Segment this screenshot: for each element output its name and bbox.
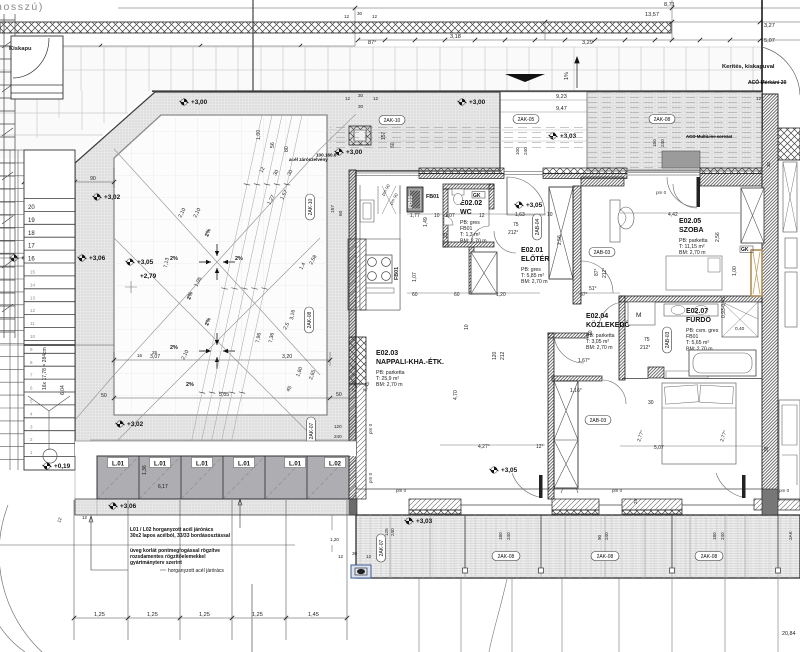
svg-text:+3,00: +3,00 — [191, 99, 208, 106]
svg-text:1,20: 1,20 — [330, 537, 339, 542]
washbasin counter — [664, 304, 718, 316]
left fence strip — [0, 14, 15, 338]
corridor walls ELOTER — [469, 247, 474, 294]
upper walkway dashes — [327, 130, 762, 141]
svg-text:51°: 51° — [589, 286, 597, 292]
svg-text:2AK-08: 2AK-08 — [307, 311, 313, 328]
svg-text:L.01: L.01 — [289, 462, 302, 468]
svg-text:50: 50 — [336, 392, 342, 398]
svg-text:36: 36 — [764, 446, 770, 452]
tall shaft X right of eloter — [549, 187, 573, 279]
svg-text:KÖZLEKEDŐ: KÖZLEKEDŐ — [586, 320, 631, 329]
svg-text:0,40: 0,40 — [735, 326, 745, 332]
wc outside door — [494, 231, 516, 253]
svg-text:12: 12 — [373, 96, 379, 101]
svg-text:50: 50 — [101, 393, 107, 399]
svg-text:1,25: 1,25 — [147, 612, 158, 618]
svg-text:120: 120 — [334, 424, 342, 429]
terrace floor — [114, 115, 327, 415]
room E02.02 WC — [460, 200, 487, 244]
svg-text:20,84: 20,84 — [782, 631, 796, 637]
WC door arc — [471, 226, 489, 244]
svg-text:90: 90 — [90, 176, 96, 182]
szoba1 door arc — [673, 184, 697, 208]
svg-text:pm 0: pm 0 — [779, 488, 790, 493]
svg-text:212°: 212° — [508, 230, 518, 236]
svg-text:100: 100 — [515, 147, 520, 155]
svg-text:L.01: L.01 — [196, 462, 209, 468]
west balcony panels — [97, 456, 349, 499]
svg-text:E02.04: E02.04 — [586, 313, 608, 320]
svg-text:+3,05: +3,05 — [501, 467, 518, 474]
svg-text:E02.01: E02.01 — [521, 247, 543, 254]
kitchen shaft FB01 — [407, 187, 423, 212]
svg-text:180: 180 — [498, 532, 503, 540]
terrace rotated dims — [46, 130, 371, 399]
svg-text:12: 12 — [82, 515, 88, 520]
svg-text:9,47: 9,47 — [556, 106, 567, 112]
svg-text:2AK-10: 2AK-10 — [308, 198, 314, 215]
svg-text:87°: 87° — [368, 40, 376, 46]
svg-text:60: 60 — [338, 210, 344, 216]
svg-text:2AK-08: 2AK-08 — [597, 554, 614, 560]
svg-text:1,25: 1,25 — [252, 612, 263, 618]
svg-text:2%: 2% — [186, 382, 194, 388]
svg-text:WC: WC — [460, 209, 472, 216]
svg-text:1,49: 1,49 — [423, 217, 429, 227]
svg-text:240: 240 — [523, 147, 528, 155]
east wall — [762, 94, 778, 500]
washing machine M — [628, 302, 655, 325]
svg-text:15: 15 — [30, 270, 36, 275]
svg-text:30: 30 — [357, 11, 363, 16]
svg-text:240: 240 — [660, 139, 665, 147]
svg-text:FB01: FB01 — [460, 226, 473, 232]
svg-text:3,29: 3,29 — [582, 40, 593, 46]
room E02.06 SZOBA — [679, 408, 708, 446]
svg-text:87°: 87° — [594, 268, 600, 276]
svg-text:3,20: 3,20 — [282, 354, 292, 360]
svg-text:100.160.6: 100.160.6 — [316, 153, 337, 158]
Kiskapu gate — [11, 36, 63, 99]
svg-text:E02.05: E02.05 — [679, 218, 701, 225]
svg-text:30: 30 — [358, 104, 364, 109]
inner白 strip bottom — [90, 439, 356, 441]
svg-text:16x 17,78 = 284cm: 16x 17,78 = 284cm — [42, 347, 48, 390]
svg-text:12: 12 — [344, 14, 350, 19]
svg-text:90: 90 — [597, 534, 602, 540]
balcony annotations — [130, 527, 231, 574]
svg-text:10: 10 — [464, 324, 470, 330]
svg-text:FB01: FB01 — [686, 334, 699, 340]
terrace X diagonals — [75, 114, 356, 444]
svg-text:+3,03: +3,03 — [416, 518, 433, 525]
gap strip above panels — [75, 441, 356, 456]
svg-text:1,67°: 1,67° — [578, 358, 590, 364]
svg-text:2AK-10: 2AK-10 — [384, 118, 401, 124]
svg-text:PB: parketta: PB: parketta — [679, 238, 708, 244]
diagonal dim chains — [187, 115, 302, 462]
svg-text:+3,00: +3,00 — [346, 149, 363, 156]
room E02.03 NAPPALI — [376, 350, 444, 388]
desk and chair szoba1 — [610, 200, 620, 242]
svg-text:+3,05: +3,05 — [526, 202, 543, 209]
svg-text:9,23: 9,23 — [556, 94, 567, 100]
south balcony deck — [356, 515, 800, 578]
svg-text:+0,19: +0,19 — [54, 463, 71, 470]
svg-text:12: 12 — [756, 96, 762, 101]
bench foot szoba2 — [666, 371, 708, 378]
svg-text:2AK-05: 2AK-05 — [518, 117, 535, 123]
svg-text:ACÓ Mérkáni 20: ACÓ Mérkáni 20 — [748, 78, 787, 86]
svg-text:SZOBA: SZOBA — [679, 227, 704, 234]
svg-text:BM: 2,70 m: BM: 2,70 m — [679, 250, 706, 256]
svg-text:2AK: 2AK — [788, 530, 793, 540]
top dimension lines — [0, 0, 800, 46]
svg-text:1,63: 1,63 — [515, 212, 525, 218]
svg-text:ELŐTÉR: ELŐTÉR — [521, 254, 549, 263]
slope 2% arrows — [199, 261, 211, 263]
bathtub — [689, 350, 756, 376]
svg-text:T: 25,9 m²: T: 25,9 m² — [376, 376, 399, 382]
svg-text:12: 12 — [30, 308, 36, 313]
interior ovals — [533, 214, 542, 240]
svg-text:PB: gres: PB: gres — [521, 267, 541, 273]
+3,06 marker near panels — [109, 503, 137, 510]
svg-text:pm 0: pm 0 — [396, 488, 407, 493]
+0,19 marker — [43, 463, 71, 470]
svg-text:12: 12 — [372, 14, 378, 19]
shower corner — [722, 302, 758, 337]
svg-text:2AK-08: 2AK-08 — [654, 117, 671, 123]
svg-text:+3,00: +3,00 — [469, 99, 486, 106]
room E02.07 FURDO — [686, 308, 719, 352]
svg-text:12: 12 — [338, 554, 344, 559]
svg-text:E02.02: E02.02 — [460, 200, 482, 207]
GK tan wall — [751, 250, 762, 296]
svg-text:1,00: 1,00 — [732, 266, 738, 276]
bed szoba2 — [662, 383, 736, 464]
svg-text:1,25: 1,25 — [94, 612, 105, 618]
room E02.05 SZOBA — [679, 218, 708, 256]
svg-text:10: 10 — [547, 212, 553, 218]
pillar — [349, 126, 371, 145]
corner blocks — [349, 499, 357, 515]
bottom dims — [74, 617, 347, 619]
svg-text:pm 0: pm 0 — [368, 472, 373, 483]
svg-text:25: 25 — [152, 350, 158, 355]
svg-text:GK: GK — [741, 247, 749, 253]
wall between szoba1 and furdo — [619, 296, 762, 302]
svg-text:212°: 212° — [640, 345, 650, 351]
north window sills — [356, 170, 700, 176]
drain box (blue) — [351, 565, 371, 578]
svg-text:1,36: 1,36 — [142, 465, 148, 475]
svg-text:+3,06: +3,06 — [120, 503, 137, 510]
svg-text:2AK-08: 2AK-08 — [498, 554, 515, 560]
svg-text:T: 5,65 m²: T: 5,65 m² — [686, 340, 709, 346]
svg-text:L.02: L.02 — [329, 462, 342, 468]
svg-text:18: 18 — [28, 231, 35, 237]
west balcony strip under panels — [75, 499, 356, 515]
svg-text:212°: 212° — [602, 268, 608, 278]
svg-text:240: 240 — [390, 528, 395, 536]
terrace surround (dotted band) — [75, 92, 500, 455]
svg-text:2,56: 2,56 — [557, 235, 563, 245]
bed szoba1 — [666, 256, 722, 290]
svg-text:180: 180 — [712, 532, 717, 540]
svg-text:+2,79: +2,79 — [140, 273, 157, 280]
svg-text:157: 157 — [330, 205, 336, 213]
svg-text:ACO MultiLine sorozat: ACO MultiLine sorozat — [686, 134, 733, 139]
reference ovals — [379, 116, 405, 125]
svg-text:1%: 1% — [564, 72, 570, 80]
kitchen sink & dashes — [360, 200, 374, 222]
south wall & sills — [356, 488, 762, 490]
svg-text:12: 12 — [366, 554, 372, 559]
room E02.01 ELOTER — [521, 247, 549, 285]
svg-text:120: 120 — [492, 351, 498, 360]
svg-text:212: 212 — [500, 351, 506, 360]
svg-text:T: 11,15 m²: T: 11,15 m² — [679, 244, 705, 250]
svg-text:75: 75 — [644, 337, 650, 343]
property boundary right — [761, 0, 763, 131]
svg-text:2AB-04: 2AB-04 — [535, 218, 541, 235]
svg-text:16: 16 — [137, 353, 143, 358]
svg-text:BM: 2,70 m: BM: 2,70 m — [521, 279, 548, 285]
svg-text:BM: 2,70 m: BM: 2,70 m — [376, 382, 403, 388]
svg-text:10: 10 — [588, 330, 594, 336]
svg-text:M: M — [636, 312, 641, 319]
svg-text:30: 30 — [766, 162, 771, 167]
svg-text:BM: 2,70 m: BM: 2,70 m — [586, 345, 613, 351]
svg-text:L.01: L.01 — [238, 462, 251, 468]
central wall — [548, 333, 554, 499]
svg-text:1,25: 1,25 — [199, 612, 210, 618]
svg-text:20: 20 — [28, 205, 35, 211]
svg-text:16: 16 — [28, 257, 35, 263]
svg-text:2%: 2% — [170, 345, 178, 351]
svg-text:2%: 2% — [170, 256, 178, 262]
fence crosshatch band — [0, 22, 671, 33]
svg-text:PB: parketta: PB: parketta — [376, 370, 405, 376]
svg-text:30x2 lapos acélból, 33/33 bord: 30x2 lapos acélból, 33/33 bordásosztássa… — [130, 533, 231, 539]
svg-text:FB01: FB01 — [408, 196, 414, 208]
svg-text:+3,02: +3,02 — [104, 194, 121, 201]
west wall — [349, 170, 356, 499]
svg-text:240: 240 — [334, 434, 342, 439]
+3,03 marker on deck — [405, 518, 433, 525]
svg-text:FB01: FB01 — [426, 194, 439, 200]
svg-text:2AK-08: 2AK-08 — [701, 554, 718, 560]
shaft X in szoba1 right — [741, 188, 764, 243]
interior dim hairlines — [407, 213, 762, 446]
svg-text:T: 1,3 m²: T: 1,3 m² — [460, 232, 480, 238]
svg-text:gyártmányterv szerint: gyártmányterv szerint — [130, 560, 182, 566]
left lower fence strip — [0, 150, 24, 470]
svg-text:125: 125 — [384, 528, 389, 536]
svg-text:+3,05: +3,05 — [137, 259, 154, 266]
svg-text:nosszú): nosszú) — [0, 1, 44, 13]
pavement left extension — [0, 91, 152, 158]
svg-text:pm 0: pm 0 — [612, 488, 623, 493]
svg-text:6,04: 6,04 — [60, 385, 66, 395]
svg-text:T: 5,85 m²: T: 5,85 m² — [521, 273, 544, 279]
cooktop — [366, 255, 392, 283]
svg-text:2,56: 2,56 — [715, 232, 721, 242]
svg-text:FB01: FB01 — [394, 267, 400, 280]
svg-text:pm 0: pm 0 — [656, 190, 667, 195]
svg-text:25: 25 — [633, 499, 638, 504]
svg-text:30: 30 — [352, 551, 358, 556]
svg-text:2%: 2% — [235, 256, 243, 262]
svg-text:10: 10 — [30, 334, 36, 339]
svg-text:L.01: L.01 — [154, 462, 167, 468]
south door leaves/arcs — [539, 475, 543, 498]
shaft with X next to eloter — [471, 252, 497, 294]
svg-text:PB: gres: PB: gres — [460, 220, 480, 226]
svg-text:12: 12 — [345, 96, 351, 101]
svg-text:4,70: 4,70 — [453, 390, 459, 400]
svg-text:L.01: L.01 — [112, 462, 125, 468]
building north wall — [419, 168, 762, 186]
szoba1 entry door leaf — [697, 177, 701, 207]
svg-text:horganyzott acél járórács: horganyzott acél járórács — [168, 568, 224, 574]
small sink wc — [444, 216, 453, 225]
kozlekedo door arcs — [599, 302, 625, 328]
svg-text:5,07: 5,07 — [764, 38, 775, 44]
svg-text:240: 240 — [604, 532, 609, 540]
room E02.04 KOZLEKEDO — [586, 313, 631, 351]
svg-text:1,07: 1,07 — [412, 272, 418, 282]
partition wall eloter/szoba1 — [573, 186, 581, 304]
svg-text:+3,06: +3,06 — [89, 255, 106, 262]
svg-text:2AB-03: 2AB-03 — [594, 250, 611, 256]
svg-text:0,93-0,45: 0,93-0,45 — [721, 297, 727, 318]
svg-text:75: 75 — [513, 222, 519, 228]
WC walls — [443, 184, 494, 247]
elevation markers — [180, 99, 208, 106]
svg-text:2AK-07: 2AK-07 — [309, 422, 315, 439]
svg-text:30: 30 — [358, 93, 364, 98]
svg-text:1,16°: 1,16° — [570, 388, 582, 394]
svg-text:Kerítés, kiskapuval: Kerítés, kiskapuval — [722, 64, 775, 70]
svg-text:2AK-07: 2AK-07 — [379, 539, 385, 556]
slope arrow — [505, 74, 545, 82]
svg-text:1,45: 1,45 — [308, 612, 319, 618]
svg-text:11: 11 — [30, 321, 35, 326]
svg-text:BM: 2,70 m: BM: 2,70 m — [460, 238, 487, 244]
svg-text:3,18: 3,18 — [450, 34, 461, 40]
wc toilet in E02.02 — [452, 189, 464, 195]
svg-text:PB: csm. gres: PB: csm. gres — [686, 328, 719, 334]
svg-text:acél zárószelvény: acél zárószelvény — [289, 157, 328, 162]
svg-text:30: 30 — [648, 400, 654, 406]
svg-text:240: 240 — [506, 532, 511, 540]
svg-text:+3,02: +3,02 — [127, 421, 144, 428]
svg-text:6,17: 6,17 — [158, 484, 168, 490]
svg-text:3,27: 3,27 — [764, 23, 775, 29]
wall fingers top of szoba2 — [648, 367, 664, 378]
svg-text:180: 180 — [652, 139, 657, 147]
svg-text:23: 23 — [443, 232, 449, 238]
svg-text:17: 17 — [28, 244, 35, 250]
guide verticals below deck — [419, 578, 778, 652]
svg-text:2AB-03: 2AB-03 — [590, 418, 607, 424]
svg-text:14: 14 — [30, 282, 36, 287]
section line — [252, 0, 254, 165]
kitchen counter — [360, 185, 400, 310]
svg-text:Kiskapu: Kiskapu — [9, 46, 32, 52]
eloter entry arc — [507, 177, 545, 215]
svg-text:13: 13 — [30, 295, 36, 300]
svg-text:NAPPALI-KHA.-ÉTK.: NAPPALI-KHA.-ÉTK. — [376, 357, 444, 366]
svg-text:2AB-03: 2AB-03 — [665, 331, 671, 348]
pavement band with grid — [0, 47, 762, 91]
svg-text:13,57: 13,57 — [645, 12, 659, 18]
svg-text:E02.03: E02.03 — [376, 350, 398, 357]
staircase — [24, 150, 75, 470]
svg-text:T: 3,05 m²: T: 3,05 m² — [586, 339, 609, 345]
svg-text:240: 240 — [720, 532, 725, 540]
svg-text:FÜRDŐ: FÜRDŐ — [686, 315, 711, 324]
svg-text:19: 19 — [28, 218, 35, 224]
svg-text:pm 0: pm 0 — [368, 423, 373, 434]
